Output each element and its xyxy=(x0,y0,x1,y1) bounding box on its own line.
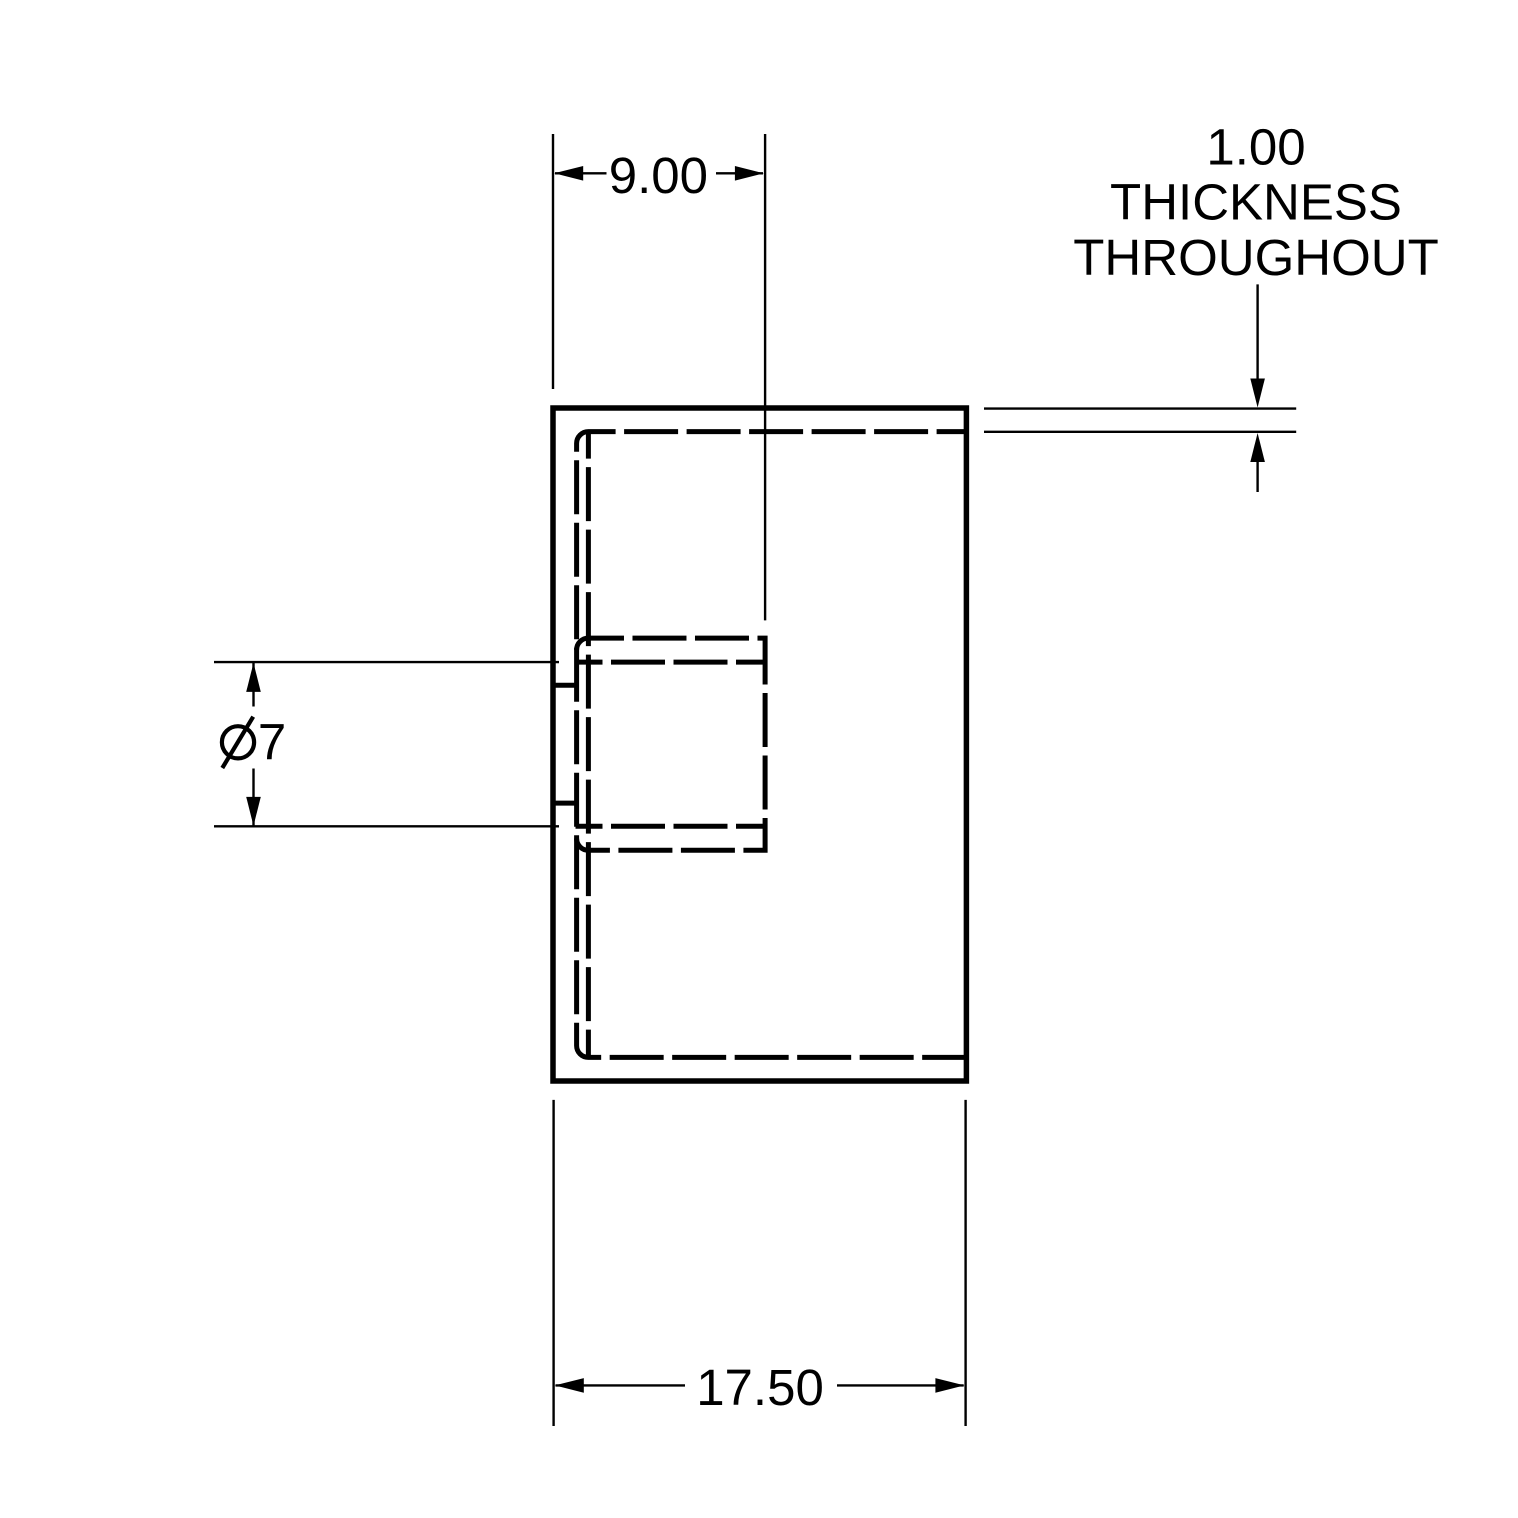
svg-text:THROUGHOUT: THROUGHOUT xyxy=(1073,229,1438,286)
dimension 17.50 : dimension line right segment with arrow xyxy=(837,1384,964,1386)
hidden wall-hole line top (dia 5 through left wall) xyxy=(555,683,575,688)
dimension dia7 : diameter symbol (circle with slash) xyxy=(222,726,254,758)
dimension dia7 : bottom extension line xyxy=(214,825,559,827)
thickness reference line inner surface xyxy=(984,431,1296,433)
thickness leader lower arrow (pointing up at inner surface) xyxy=(1256,443,1258,492)
dimension 17.50 : dimension line left segment with arrow xyxy=(556,1384,686,1386)
dimension 17.50 : left extension line xyxy=(552,1100,554,1426)
dimension dia7 : dimension line upper segment with up arrow xyxy=(252,663,254,707)
hidden cavity silhouette (dashed): top inner wall, left inner wall with fillet arcs, bottom inner wall xyxy=(577,432,966,1058)
hidden wall-hole line bottom (dia 5 through left wall) xyxy=(555,801,575,806)
hidden fillet tangency line (inner wall) xyxy=(586,432,591,1058)
dimension dia7 : dimension line lower segment with down arrow xyxy=(252,769,254,826)
hidden hole bore line bottom (dia 7) xyxy=(576,824,766,829)
svg-text:THICKNESS: THICKNESS xyxy=(1110,173,1402,230)
svg-text:1.00: 1.00 xyxy=(1206,118,1305,175)
hidden hole bore line top (dia 7) xyxy=(576,660,766,665)
outer box (part outline) xyxy=(553,408,966,1081)
svg-text:9.00: 9.00 xyxy=(609,147,708,204)
dimension 9.00 : right extension line xyxy=(764,134,766,620)
thickness leader upper arrow (pointing down at outer surface) xyxy=(1256,284,1258,396)
dimension 9.00 : dimension line left segment with arrow xyxy=(555,172,607,174)
dimension dia7 : top extension line xyxy=(214,661,559,663)
dimension 9.00 : dimension line right segment with arrow xyxy=(716,172,763,174)
hidden boss outline (dashed) with base fillets xyxy=(577,638,766,850)
dimension 17.50 : right extension line xyxy=(964,1100,966,1426)
svg-text:7: 7 xyxy=(258,714,286,771)
dimension 9.00 : left extension line xyxy=(552,134,554,389)
thickness reference line outer surface xyxy=(984,407,1296,409)
svg-text:17.50: 17.50 xyxy=(696,1359,824,1416)
